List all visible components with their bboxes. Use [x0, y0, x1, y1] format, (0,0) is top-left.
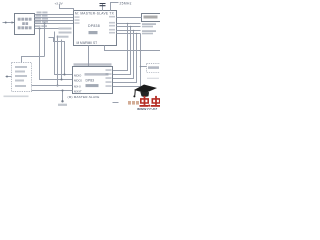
- wire TP pair 2b: [117, 33, 141, 35]
- junction dot D: [61, 79, 63, 81]
- dash right of text: [113, 102, 119, 104]
- wire module to U3 pin3: [32, 85, 73, 87]
- U2 mode text: [89, 31, 98, 34]
- wire vertical bus 3: [57, 36, 59, 86]
- svg-text:25MHz: 25MHz: [120, 1, 132, 5]
- svg-text:M MII/RMII ST: M MII/RMII ST: [77, 41, 98, 45]
- wire PHY to RJ45: [117, 17, 142, 19]
- label RXD: [35, 21, 48, 23]
- label pair 1: [142, 23, 156, 27]
- wire media vertical 1: [113, 24, 128, 71]
- power wire: [60, 5, 74, 11]
- wire vertical from dot A: [44, 24, 46, 57]
- watermark char chong 1: [140, 96, 151, 107]
- cap tassel: [134, 90, 137, 96]
- label pair 2: [142, 30, 156, 34]
- net label stub 1: [59, 28, 72, 30]
- watermark light text: [128, 101, 139, 105]
- junction dot B: [39, 28, 41, 30]
- wire ref clock down: [88, 46, 90, 67]
- junction dot G: [133, 30, 135, 32]
- crystal X1 pin wire 1: [102, 3, 104, 11]
- wire into MCU left pin: [3, 22, 15, 24]
- crystal X1 pin wire 2: [111, 3, 119, 11]
- transformer T1 dashed box: [147, 64, 162, 73]
- faint dashed row below T1: [147, 78, 159, 79]
- wire vertical bus 2: [62, 40, 73, 80]
- junction dot F: [130, 26, 132, 28]
- stub dot: [6, 76, 8, 78]
- wire module to U3 pin4: [32, 90, 73, 92]
- watermark char chong 2: [151, 96, 162, 107]
- module text row5: [15, 85, 26, 87]
- junction dot E: [127, 23, 129, 25]
- wire MII TX_EN: [35, 17, 74, 19]
- MCU U1 text: [18, 18, 32, 30]
- tassel knot: [133, 95, 135, 97]
- wire TP pair 1a: [117, 23, 141, 25]
- crystal X1 plates: [100, 4, 106, 6]
- ground dot: [61, 100, 63, 102]
- label TX_EN: [36, 15, 48, 17]
- net label stub 3: [57, 36, 69, 38]
- U3 mode text: [86, 84, 99, 87]
- junction dot I: [140, 50, 142, 52]
- label MDIO: [35, 25, 47, 27]
- module text row1: [15, 66, 27, 68]
- module caption dashes: [4, 96, 29, 98]
- svg-text:MDC0: MDC0: [74, 79, 82, 83]
- svg-text:(M) MASTER-SLAVE: (M) MASTER-SLAVE: [68, 95, 100, 99]
- wire MII RXD: [35, 23, 74, 25]
- wire MII TX_CLK: [35, 14, 74, 16]
- module text row2: [15, 71, 25, 73]
- watermark graduation cap board: [134, 85, 157, 94]
- junction dot N: [62, 90, 64, 92]
- svg-text:M: MASTER-SLAVE TX: M: MASTER-SLAVE TX: [75, 12, 115, 16]
- cap head: [140, 92, 149, 97]
- U3 top row pin text: [74, 63, 112, 66]
- U3 title row: [85, 73, 109, 76]
- U2 left pin labels: [75, 16, 80, 24]
- U3 right pin labels: [106, 69, 112, 87]
- net label stub 2: [59, 32, 72, 34]
- wire media vertical 4: [113, 34, 137, 83]
- wire TP pair 1b: [117, 26, 141, 28]
- wire vertical bus 4: [49, 38, 65, 75]
- U2 right pin labels: [109, 16, 115, 34]
- junction dot H: [136, 33, 138, 35]
- module text row3: [15, 75, 27, 77]
- svg-text:DP83: DP83: [86, 79, 95, 83]
- svg-text:MDIO: MDIO: [74, 74, 82, 78]
- wire MII TXD: [35, 20, 74, 22]
- module left stub: [6, 76, 12, 78]
- wire clock out: [105, 46, 161, 51]
- junction dot C: [57, 85, 59, 87]
- label TXD: [35, 18, 48, 20]
- wire vertical bus 1: [55, 32, 73, 75]
- RJ45 J1 box: [142, 14, 162, 22]
- PHY U3 box (slave): [73, 67, 113, 94]
- svg-text:WWW.CC-DZ: WWW.CC-DZ: [137, 108, 157, 111]
- ground stub wire: [62, 91, 64, 101]
- wire media vertical 3: [113, 31, 134, 79]
- arrowhead: [12, 21, 15, 23]
- junction dot J: [140, 66, 142, 68]
- label TX_CLK: [37, 12, 48, 14]
- wire branch to transformer: [141, 66, 147, 68]
- wire MDIO: [35, 28, 59, 30]
- background: [0, 0, 160, 110]
- svg-text:MX-0: MX-0: [74, 84, 81, 88]
- svg-text:MXXT: MXXT: [74, 89, 82, 93]
- junction dot A: [44, 23, 46, 25]
- wire TP pair 2a: [117, 30, 141, 32]
- MDIO MCU module dashed box: [12, 63, 32, 92]
- module top wire: [22, 57, 45, 63]
- wire media vertical 2: [113, 27, 131, 75]
- J1 text: [144, 16, 158, 19]
- wire media vertical 5: [113, 34, 141, 87]
- MCU U1 box (ethernet controller): [15, 14, 35, 35]
- wire vertical from dot B: [40, 29, 73, 80]
- ground label: [58, 104, 67, 106]
- PHY U2 box (master): [74, 11, 117, 46]
- T1 text row1: [148, 66, 159, 69]
- module text row4: [15, 80, 24, 82]
- svg-text:DP838: DP838: [88, 24, 100, 28]
